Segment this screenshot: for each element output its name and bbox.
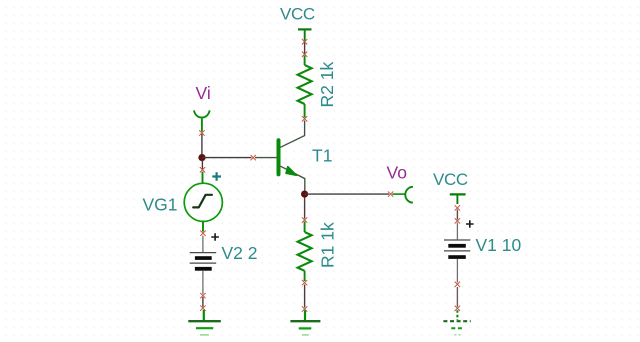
wire VCC to V1 (456, 210, 458, 220)
plus sign of VG1 (teal) (212, 172, 221, 181)
pin cross x1 (302, 39, 307, 44)
battery V2 (190, 236, 217, 295)
pin cross x12 (middle ground) (302, 306, 307, 311)
pin cross x4 (Vi) (199, 130, 204, 135)
pin cross x17 (right ground) (455, 306, 460, 311)
pin cross x3 (302, 116, 307, 121)
wire V2 to ground (202, 297, 204, 307)
svg-text:V1 10: V1 10 (476, 235, 522, 255)
battery V1 (444, 223, 470, 283)
pin cross x6 (VG1 top) (200, 167, 205, 172)
power VCC symbol (right) (450, 194, 466, 204)
wire R1 to ground (304, 285, 306, 308)
transistor T1 (279, 121, 305, 192)
wire VCC to R2 (304, 42, 306, 55)
wire node A to base (202, 157, 252, 159)
wire node B to Vo (305, 193, 389, 195)
pin cross x9 (left ground) (200, 305, 205, 310)
resistor R2 (298, 56, 312, 118)
pin cross x10 (R1 top) (302, 217, 307, 222)
pin cross x2 (302, 52, 307, 57)
plus sign of V1 (black) (466, 220, 474, 228)
pin cross x11 (R1 bottom) (302, 280, 307, 285)
wire node A to VG1 (201, 160, 203, 170)
pin cross x5 (base) (251, 155, 256, 160)
ground (middle) (290, 310, 320, 335)
wire node B to R1 (304, 198, 306, 219)
ground (left) (188, 310, 221, 335)
pin cross x16 (V1 bottom) (455, 282, 460, 287)
terminal Vo (392, 187, 413, 203)
source VG1 (184, 172, 222, 232)
svg-text:Vi: Vi (196, 83, 211, 103)
pin cross x14 (VCC right) (455, 205, 460, 210)
svg-text:V2 2: V2 2 (222, 243, 258, 263)
svg-text:R2 1k: R2 1k (317, 62, 337, 108)
pin cross x7 (VG1 bottom / V2 top) (200, 231, 205, 236)
lead base of T1 (255, 157, 277, 159)
svg-text:VCC: VCC (433, 170, 468, 189)
power VCC symbol (top) (298, 29, 312, 40)
node A (base node) (198, 154, 205, 161)
svg-text:VCC: VCC (280, 4, 315, 23)
wire Vi to node A (201, 134, 203, 155)
wire V1 to ground (456, 287, 458, 307)
svg-text:T1: T1 (312, 146, 332, 166)
pin cross x13 (Vo) (388, 191, 393, 196)
plus sign of V2 (black) (211, 233, 219, 241)
svg-text:R1 1k: R1 1k (318, 222, 338, 268)
resistor R1 (298, 222, 312, 282)
svg-text:VG1: VG1 (143, 194, 178, 214)
pin cross x8 (V2 bottom) (200, 293, 205, 298)
node B (emitter node) (301, 191, 308, 198)
ground (right, dashed) (443, 310, 470, 335)
pin cross x15 (V1 top) (455, 218, 460, 223)
terminal Vi (194, 110, 210, 131)
svg-text:Vo: Vo (387, 162, 407, 182)
